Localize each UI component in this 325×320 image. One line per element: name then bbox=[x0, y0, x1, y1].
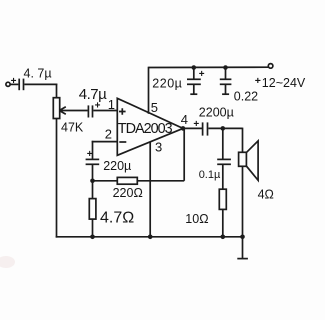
input terminal circle bbox=[6, 82, 10, 86]
supply terminal circle bbox=[268, 64, 273, 69]
wire C3 to feedback node bbox=[92, 165, 94, 181]
wire output down to feedback line bbox=[183, 128, 185, 180]
wire ground stem bbox=[242, 237, 244, 259]
wire C4 to speaker corner bbox=[208, 127, 242, 129]
C7 bottom tick bbox=[222, 93, 229, 95]
wire pin 5 vertical to supply rail bbox=[148, 67, 150, 114]
svg-text:5: 5 bbox=[151, 100, 158, 115]
svg-text:4.7Ω: 4.7Ω bbox=[100, 210, 134, 227]
capacitor C7 0.22 bottom plate bbox=[220, 83, 232, 85]
svg-text:12~24V: 12~24V bbox=[262, 76, 306, 90]
svg-text:220µ: 220µ bbox=[103, 159, 131, 173]
svg-text:3: 3 bbox=[155, 139, 162, 154]
resistor R2 4.7ohm body bbox=[89, 199, 96, 220]
wire speaker drop vertical top bbox=[242, 128, 244, 153]
capacitor C6 220u top plate bbox=[187, 78, 201, 80]
wire C1 to corner bbox=[24, 83, 57, 85]
wire C5 to R3 bbox=[222, 165, 224, 190]
faint scan smudge bbox=[0, 256, 15, 268]
node pin3 ground junction bbox=[148, 235, 153, 240]
node rail C6 junction bbox=[192, 65, 197, 70]
supply rail wire bbox=[149, 66, 269, 68]
potentiometer wiper arrow bbox=[59, 107, 87, 114]
svg-text:1: 1 bbox=[108, 97, 115, 112]
wire corner down to potentiometer top bbox=[56, 84, 58, 98]
svg-text:+: + bbox=[255, 75, 261, 87]
ground rail wire bbox=[56, 236, 243, 238]
svg-text:TDA2003: TDA2003 bbox=[118, 121, 173, 137]
wire rail to C7 bbox=[225, 68, 227, 80]
speaker LS cone bbox=[247, 141, 259, 180]
svg-text:2: 2 bbox=[105, 126, 112, 141]
wire down to C5 bbox=[222, 128, 224, 159]
wire feedback node to R1 bbox=[93, 180, 118, 182]
capacitor C1 4.7u input left plate bbox=[18, 79, 20, 91]
node junction output RC bbox=[221, 126, 226, 131]
node rail C7 junction bbox=[223, 65, 228, 70]
svg-text:4: 4 bbox=[181, 112, 188, 127]
svg-text:4. 7µ: 4. 7µ bbox=[24, 67, 52, 81]
wire R2 to ground rail bbox=[92, 219, 94, 238]
node R3 ground junction bbox=[221, 235, 226, 240]
svg-text:220Ω: 220Ω bbox=[113, 186, 143, 200]
minus symbol inside op-amp bbox=[119, 141, 126, 143]
wire output to C4 bbox=[183, 127, 202, 129]
capacitor C2 4.7u left plate bbox=[87, 105, 89, 117]
wire pin 2 horizontal bbox=[92, 141, 117, 143]
svg-text:2200µ: 2200µ bbox=[199, 105, 234, 119]
wire potentiometer bottom lead bbox=[56, 119, 58, 238]
capacitor C5 0.1u bottom plate bbox=[217, 163, 231, 165]
capacitor C5 0.1u top plate bbox=[217, 158, 231, 160]
svg-text:220µ: 220µ bbox=[152, 77, 182, 91]
wire C2 to pin 1 bbox=[93, 110, 117, 112]
svg-text:47K: 47K bbox=[61, 121, 84, 135]
svg-text:10Ω: 10Ω bbox=[185, 212, 208, 226]
wire speaker bottom to ground rail bbox=[242, 166, 244, 237]
svg-text:4.7µ: 4.7µ bbox=[79, 86, 107, 103]
capacitor C3 220u top plate bbox=[86, 158, 100, 160]
svg-text:+: + bbox=[199, 69, 205, 80]
node R2 ground junction bbox=[90, 235, 95, 240]
wire feedback node down to R2 bbox=[92, 181, 94, 199]
svg-text:0.22: 0.22 bbox=[234, 89, 258, 103]
wire input terminal to C1 bbox=[10, 83, 18, 85]
potentiometer RP 47K body bbox=[53, 98, 59, 119]
wire pin2 down to C3 bbox=[92, 141, 94, 159]
op-amp U1 TDA2003 triangle bbox=[117, 98, 183, 155]
capacitor C2 4.7u right plate bbox=[92, 105, 94, 117]
C6 bottom tick bbox=[190, 93, 197, 95]
svg-text:+: + bbox=[193, 119, 199, 130]
node speaker ground junction bbox=[240, 235, 245, 240]
wire R3 to ground rail bbox=[222, 209, 224, 237]
plus symbol inside op-amp bbox=[119, 108, 126, 115]
svg-text:4Ω: 4Ω bbox=[258, 187, 274, 201]
capacitor C7 0.22 top plate bbox=[220, 78, 232, 80]
speaker LS body rectangle bbox=[239, 152, 247, 166]
wire R1 to output branch bbox=[137, 180, 184, 182]
capacitor C4 2200u right plate bbox=[207, 122, 209, 135]
wire rail to C6 bbox=[193, 68, 195, 80]
capacitor C3 220u bottom plate bbox=[86, 163, 100, 165]
ground symbol bbox=[237, 258, 248, 260]
capacitor C4 2200u left plate bbox=[202, 122, 204, 135]
resistor R1 220ohm body bbox=[117, 177, 137, 184]
wire C7 bottom lead bbox=[225, 85, 227, 94]
node output junction at apex bbox=[181, 126, 186, 131]
resistor R3 10ohm body bbox=[219, 189, 226, 209]
svg-text:0.1µ: 0.1µ bbox=[199, 169, 221, 181]
capacitor C1 4.7u input right plate bbox=[23, 79, 25, 91]
wire pin 3 vertical to ground rail bbox=[149, 142, 151, 238]
wire C6 bottom lead bbox=[193, 85, 195, 94]
svg-text:+: + bbox=[11, 76, 17, 87]
capacitor C6 220u bottom plate bbox=[187, 83, 201, 85]
node feedback junction bbox=[90, 179, 95, 184]
